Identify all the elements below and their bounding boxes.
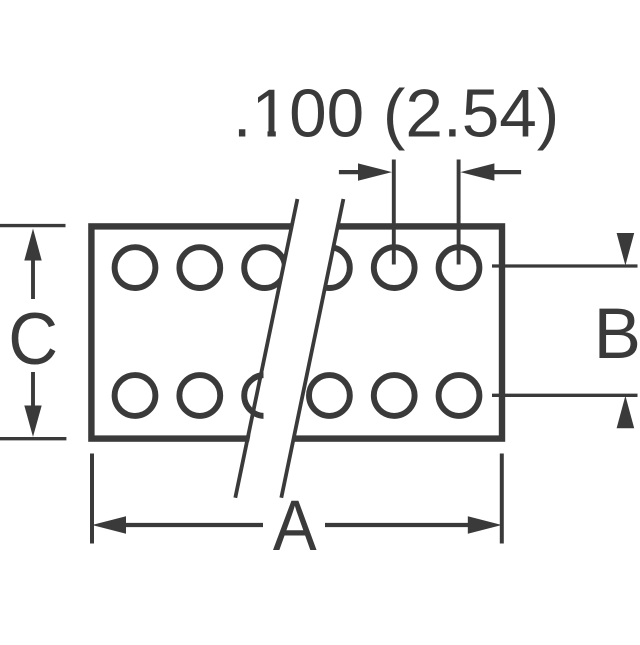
C dimension bottom tick [0, 437, 66, 440]
pitch extension line left [392, 160, 396, 265]
break band white-out [238, 198, 344, 499]
pitch arrowhead right [460, 163, 494, 180]
C arrowhead down [24, 406, 41, 437]
body outline [91, 226, 502, 438]
hole 6 bottom [439, 375, 480, 416]
hole 1 bottom [115, 375, 156, 416]
A dimension line right segment [325, 523, 469, 527]
hole 2 bottom [179, 375, 220, 416]
hole 4 bottom [309, 375, 350, 416]
hole row top [115, 247, 480, 416]
pitch extension line right [457, 160, 461, 265]
A arrowhead right [468, 516, 502, 533]
C dimension line lower segment [31, 372, 35, 409]
pitch arrow left shaft [339, 170, 362, 174]
hole 5 top [374, 247, 415, 288]
svg-text:.100 (2.54): .100 (2.54) [233, 77, 559, 152]
A arrowhead left [92, 516, 126, 533]
pitch arrow right shaft [492, 170, 521, 174]
B leader bottom [492, 394, 638, 397]
hole 4 top [309, 247, 350, 288]
break line left [235, 199, 297, 498]
A extension line right [500, 454, 504, 544]
svg-text:A: A [273, 487, 317, 566]
pitch arrowhead left [358, 163, 392, 180]
hole 2 top [179, 247, 220, 288]
A dimension line left segment [124, 523, 263, 527]
C dimension top tick [0, 224, 66, 227]
hole 3 top [244, 247, 285, 288]
hole 6 top [439, 247, 480, 288]
mask serif foot of digit 1 (left) [253, 131, 268, 139]
B arrowhead down [617, 233, 635, 266]
break line right [281, 199, 343, 498]
hole 3 bottom [244, 375, 285, 416]
svg-text:C: C [8, 299, 58, 380]
C dimension line upper segment [31, 256, 35, 299]
B arrowhead up [617, 396, 635, 429]
svg-text:B: B [594, 295, 640, 374]
hole 1 top [115, 247, 156, 288]
C arrowhead up [24, 229, 41, 261]
mask serif foot of digit 1 (right) [276, 131, 289, 139]
A extension line left [90, 454, 94, 544]
hole 5 bottom [374, 375, 415, 416]
B leader top [492, 264, 638, 267]
